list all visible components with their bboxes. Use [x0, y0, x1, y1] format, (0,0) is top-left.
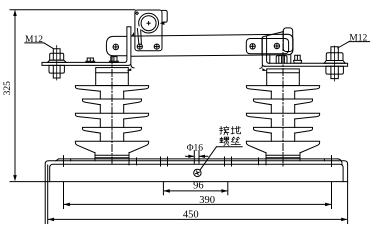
- svg-text:325: 325: [3, 81, 13, 96]
- svg-text:390: 390: [199, 195, 215, 206]
- svg-text:Φ16: Φ16: [187, 144, 204, 154]
- svg-text:M12: M12: [349, 34, 367, 44]
- svg-text:M12: M12: [25, 35, 43, 45]
- svg-text:450: 450: [183, 210, 199, 221]
- svg-text:96: 96: [193, 181, 204, 192]
